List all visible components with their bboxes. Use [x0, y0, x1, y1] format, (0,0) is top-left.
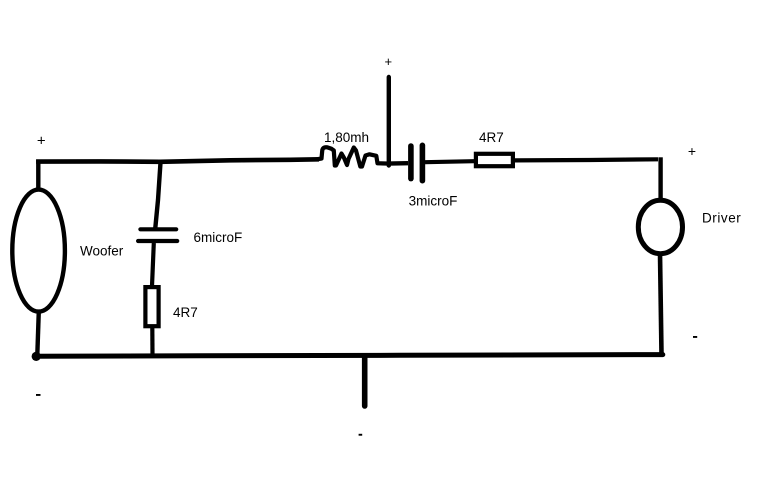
wire bottom horizontal (ground bus) — [35, 355, 663, 357]
svg-text:4R7: 4R7 — [173, 305, 198, 320]
svg-text:6microF: 6microF — [194, 230, 243, 245]
label - (driver negative) — [693, 336, 697, 338]
resistor R1 4R7 (vertical) — [145, 287, 158, 326]
driver SPK2 (ellipse) — [638, 200, 682, 253]
node + (input positive terminal stem) — [387, 77, 391, 166]
inductor L1 1,80mh — [317, 147, 390, 166]
wire C1 to resistor R1 — [152, 243, 154, 286]
svg-text:1,80mh: 1,80mh — [324, 130, 369, 145]
woofer SPK1 (ellipse) — [12, 190, 65, 312]
wire resistor R1 to ground bus — [150, 326, 154, 355]
svg-text:3microF: 3microF — [409, 194, 458, 209]
capacitor C1 6microF bottom plate — [138, 239, 177, 243]
svg-text:+: + — [385, 54, 393, 69]
resistor R2 4R7 (horizontal) — [476, 154, 513, 166]
capacitor C2 3microF left plate — [408, 146, 414, 179]
wire woofer bottom vertical — [37, 311, 39, 355]
wire driver top vertical — [658, 157, 662, 199]
svg-text:+: + — [37, 133, 46, 150]
capacitor C1 6microF top plate — [140, 227, 176, 231]
wire capacitor C2 to resistor R2 — [425, 161, 474, 162]
wire capacitor branch vertical (top wire to C1) — [155, 163, 160, 229]
wire ground stub (bus to minus terminal) — [362, 356, 368, 406]
wire top horizontal (woofer to inductor) — [36, 159, 319, 162]
label - (woofer negative) — [36, 394, 41, 396]
svg-text:4R7: 4R7 — [479, 130, 504, 145]
svg-text:Driver: Driver — [702, 210, 741, 225]
svg-text:+: + — [688, 143, 696, 159]
junction dot (woofer negative to bus) — [32, 352, 41, 361]
wire driver bottom vertical — [660, 254, 662, 355]
label - (ground terminal) — [359, 434, 363, 436]
wire inductor to capacitor C2 — [388, 161, 408, 166]
capacitor C2 3microF right plate — [420, 145, 426, 180]
wire top-left vertical (plus terminal to woofer) — [36, 160, 40, 191]
wire resistor R2 to driver — [515, 159, 659, 160]
svg-text:Woofer: Woofer — [80, 244, 124, 259]
